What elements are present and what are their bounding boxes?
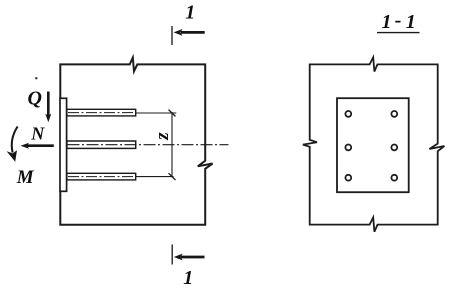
anchor hole A4 <box>391 145 397 151</box>
embedded steel plate <box>60 98 67 191</box>
svg-text:Q: Q <box>28 88 42 110</box>
section title underline <box>377 32 420 34</box>
svg-text:-: - <box>395 10 402 32</box>
embedded plate (section view) <box>337 98 409 192</box>
concrete column outline (elevation view) with break symbols <box>60 58 212 225</box>
anchor hole A3 <box>345 145 351 151</box>
anchor rod 3 centerline <box>68 176 135 178</box>
svg-text:1: 1 <box>185 2 195 24</box>
anchor hole A6 <box>391 175 397 181</box>
anchor hole A5 <box>345 175 351 181</box>
axis centerline through middle anchor <box>68 144 229 146</box>
dimension z: extension line from anchor 3 <box>136 176 174 178</box>
anchor rod 3 (bottom) <box>67 173 136 180</box>
dimension z: extension line from anchor 1 <box>136 112 177 114</box>
anchor rod 1 (top) <box>67 109 136 116</box>
svg-text:1: 1 <box>382 11 392 33</box>
anchor hole A2 <box>391 111 397 117</box>
moment M curved arrow <box>12 127 18 153</box>
stray scan dot <box>35 77 37 79</box>
dimension tick top <box>169 110 176 117</box>
svg-text:N: N <box>30 124 45 144</box>
svg-text:M: M <box>16 167 35 188</box>
dimension tick bottom <box>169 173 176 180</box>
svg-text:z: z <box>152 132 173 141</box>
svg-text:1: 1 <box>183 267 193 288</box>
svg-text:1: 1 <box>406 11 416 33</box>
section mark top: thick arrow <box>181 31 205 34</box>
concrete outline (section view) with break symbols <box>303 57 445 232</box>
dimension z: vertical dimension line <box>171 112 173 178</box>
anchor hole A1 <box>345 111 351 117</box>
force Q arrow (downward) <box>47 92 50 118</box>
anchor rod 2 (middle) <box>67 141 136 148</box>
section mark bottom: tick line <box>171 245 173 265</box>
anchor rod 1 centerline <box>68 112 135 114</box>
force N arrow (leftward) <box>26 144 54 147</box>
section mark top: tick line <box>171 26 173 45</box>
section mark bottom: thick arrow <box>181 256 205 259</box>
